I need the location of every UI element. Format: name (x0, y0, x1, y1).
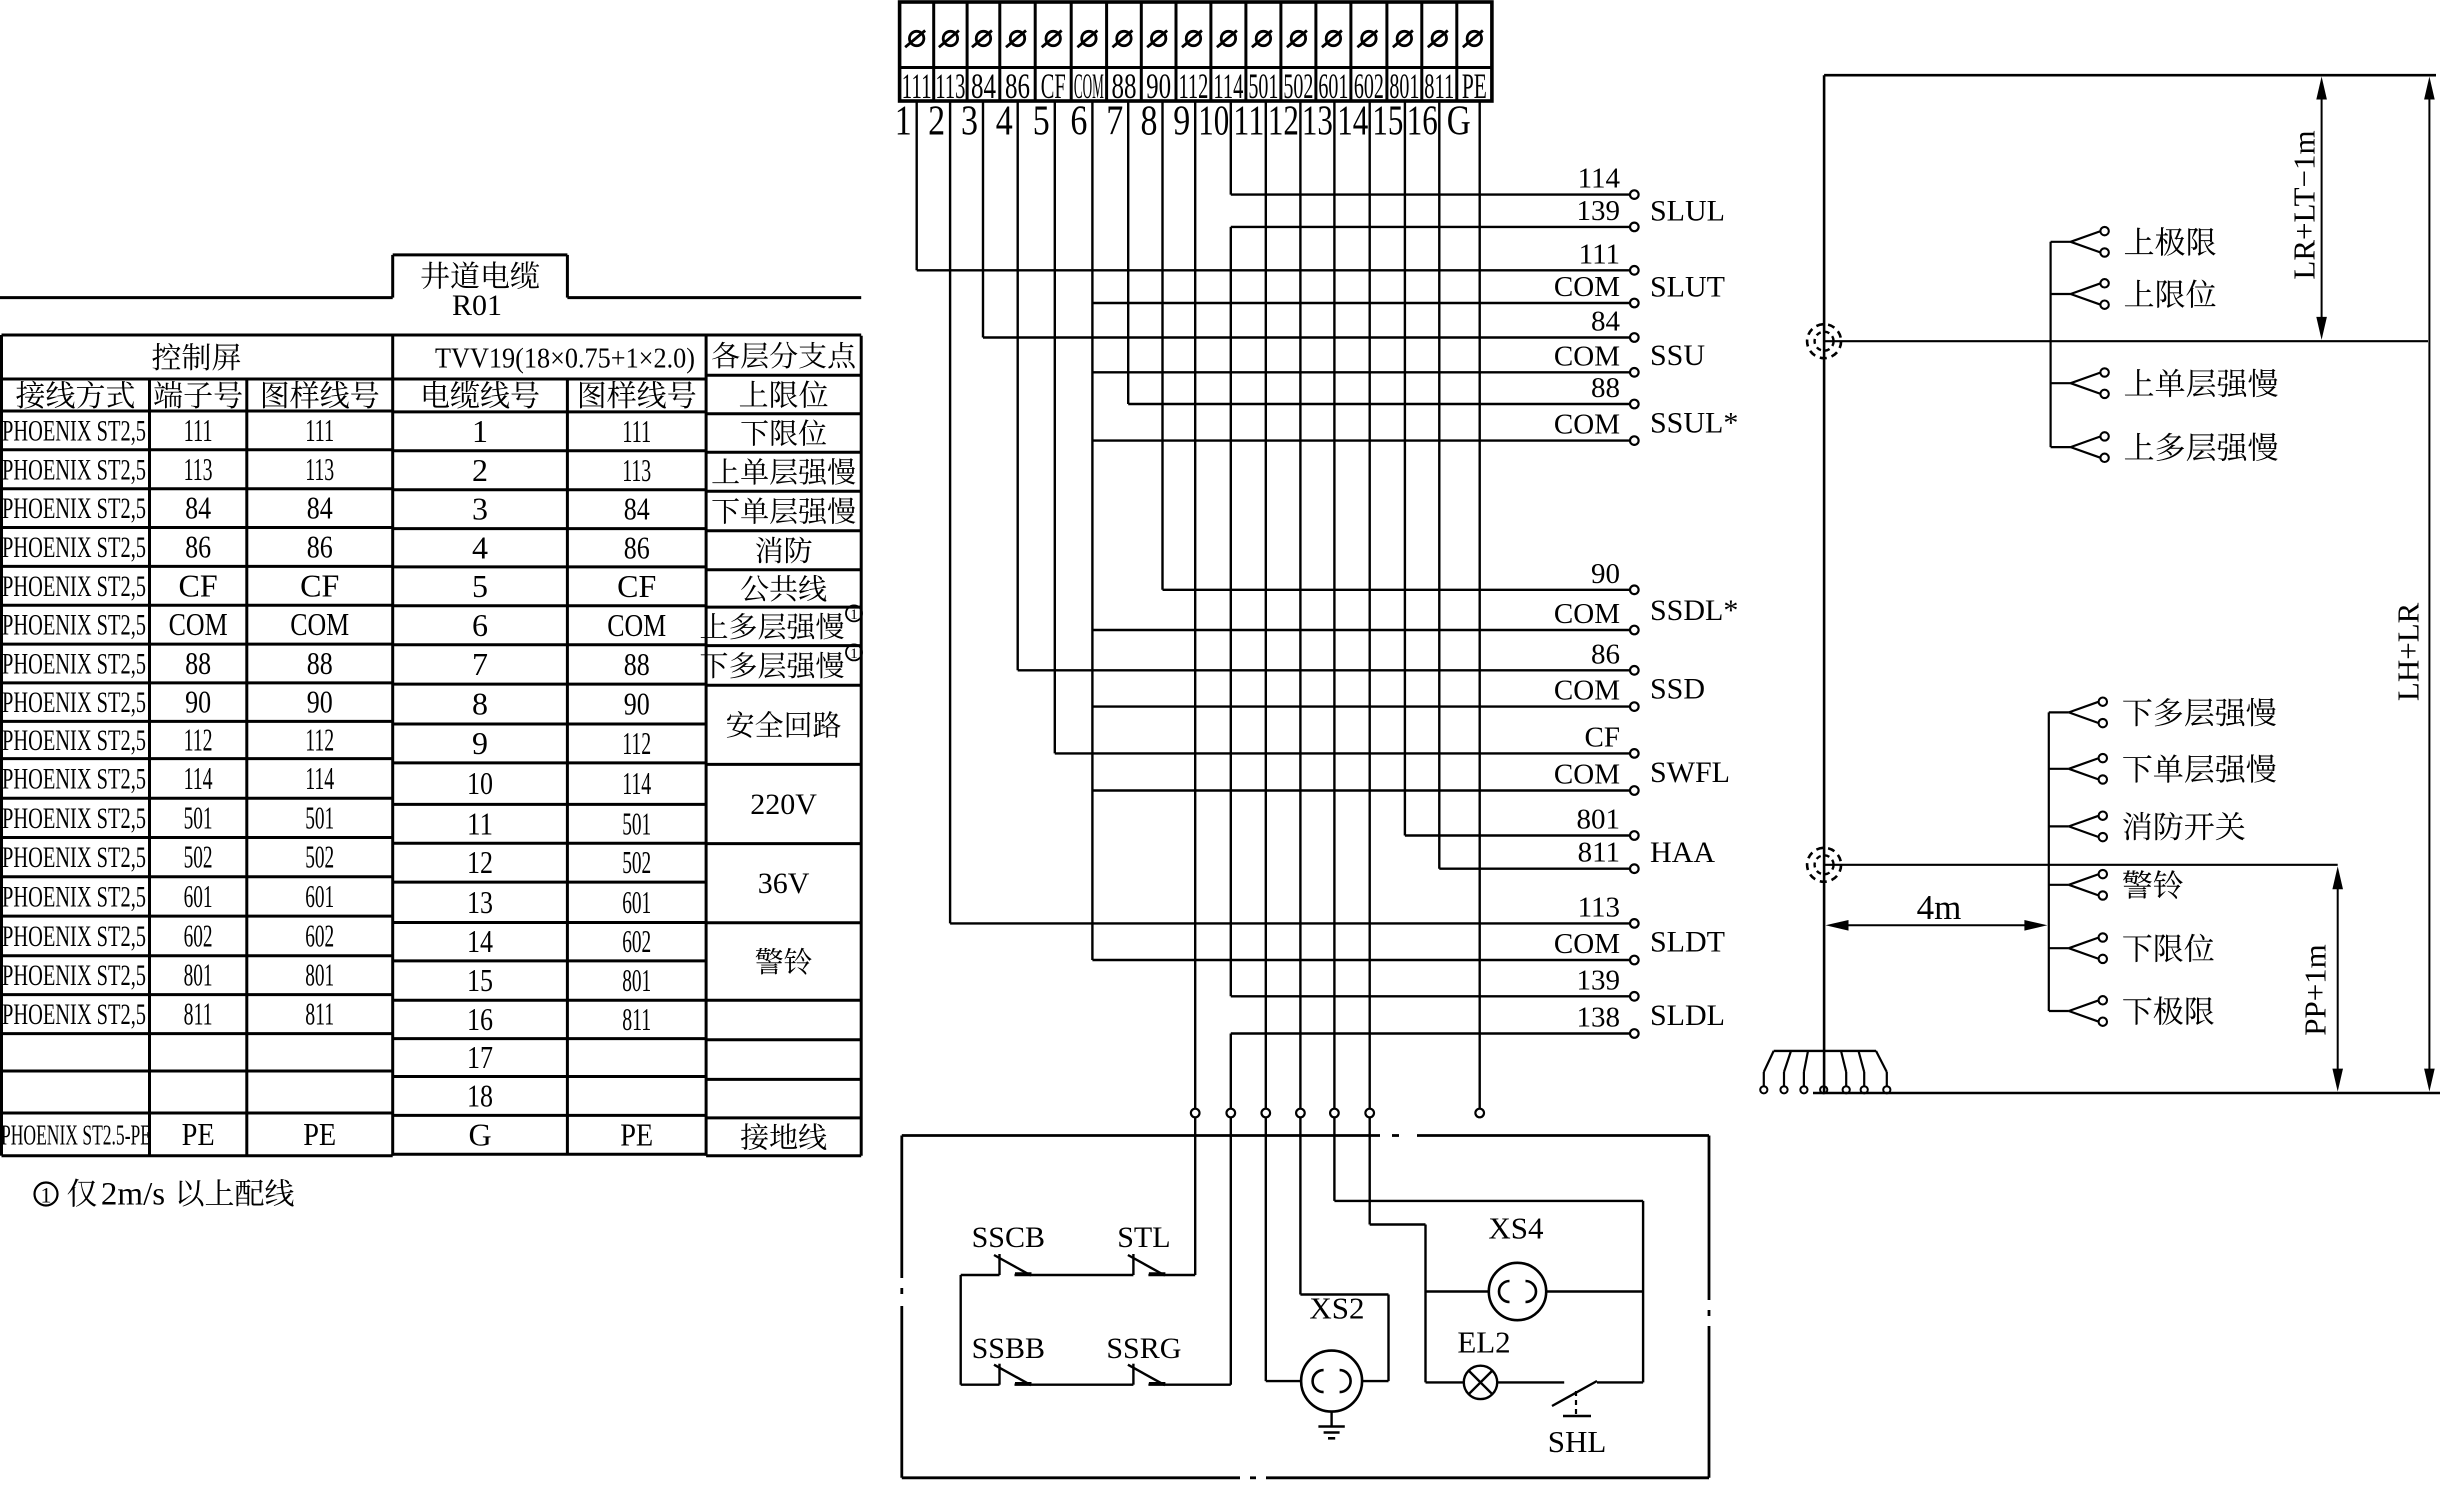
terminal 10 screw symbol (1217, 31, 1237, 48)
svg-text:602: 602 (305, 917, 334, 953)
svg-text:COM: COM (1554, 675, 1620, 707)
svg-text:84: 84 (624, 491, 650, 527)
wire 86 to SSD upper contact (1018, 666, 1639, 675)
wire COM branch to SSU lower contact (1092, 368, 1638, 377)
shaft travelling-cable vertical (1823, 75, 1826, 1093)
table branch cell 警铃 (756, 948, 783, 975)
dimension PP+1m (2332, 866, 2343, 1091)
svg-text:PHOENIX ST2,5: PHOENIX ST2,5 (2, 414, 146, 447)
table branch cell 公共线 (741, 575, 768, 601)
svg-text:113: 113 (622, 452, 651, 488)
svg-text:113: 113 (184, 451, 213, 487)
wire 801 to HAA upper contact (1405, 831, 1639, 840)
svg-text:PHOENIX ST2,5: PHOENIX ST2,5 (2, 880, 146, 913)
socket XS4 (36V socket) (1489, 1263, 1546, 1320)
svg-text:PP+1m: PP+1m (2298, 944, 2333, 1036)
svg-text:12: 12 (467, 844, 493, 880)
svg-text:PHOENIX ST2,5: PHOENIX ST2,5 (2, 998, 146, 1031)
table branch cell 安全回路 (727, 711, 754, 738)
svg-text:PHOENIX ST2,5: PHOENIX ST2,5 (2, 920, 146, 953)
dimension 4m (1826, 920, 2048, 931)
branch line at lower fixing point (1824, 864, 2338, 866)
svg-text:14: 14 (1337, 99, 1368, 145)
table header 图样线号(2) (580, 381, 605, 408)
svg-text:PHOENIX ST2,5: PHOENIX ST2,5 (2, 802, 146, 835)
svg-text:88: 88 (624, 646, 650, 682)
svg-text:SLDL: SLDL (1650, 999, 1725, 1032)
svg-text:111: 111 (622, 413, 651, 449)
label 上极限 (2125, 228, 2153, 255)
svg-text:9: 9 (472, 725, 488, 761)
dimension LH+LR (2424, 77, 2435, 1092)
svg-text:1: 1 (895, 99, 912, 145)
svg-text:11: 11 (1233, 99, 1264, 145)
svg-text:801: 801 (184, 957, 213, 993)
svg-text:COM: COM (1554, 409, 1620, 441)
wire COM branch to SWFL lower contact (1092, 786, 1638, 795)
wire 88 to SSUL* upper contact (1128, 400, 1638, 409)
table header 接线方式 (16, 381, 44, 409)
wire 111 vertical from terminal 1 (916, 101, 918, 270)
svg-text:CF: CF (1585, 721, 1620, 753)
connector point PE at car-box entry (1475, 1109, 1484, 1118)
dimension text LR+LT-1m (2287, 130, 2322, 279)
svg-text:811: 811 (622, 1001, 651, 1037)
svg-text:6: 6 (472, 607, 488, 643)
table branch cell 上单层强慢 (712, 458, 739, 483)
terminal 1 screw symbol (905, 31, 925, 48)
wire 138 to SLDL lower contact (1231, 1029, 1639, 1038)
wire 114 to SLUL upper contact (1231, 190, 1639, 199)
svg-text:PHOENIX ST2,5: PHOENIX ST2,5 (2, 959, 146, 992)
label 下多层强慢 (2123, 699, 2152, 727)
table header 电缆线号 (424, 381, 449, 408)
wire 602 vertical from terminal 14 (1368, 101, 1370, 1109)
wire XS4 left lead (1426, 1290, 1489, 1292)
svg-text:PHOENIX ST2,5: PHOENIX ST2,5 (2, 762, 146, 795)
branch switch up single-floor speed switch (2051, 368, 2109, 398)
svg-text:501: 501 (184, 799, 213, 835)
svg-text:COM: COM (169, 606, 228, 642)
svg-text:5: 5 (472, 568, 488, 604)
svg-text:502: 502 (622, 844, 651, 880)
wire 811 vertical from terminal 16 (1438, 101, 1440, 869)
svg-text:15: 15 (1372, 99, 1403, 145)
svg-text:SSBB: SSBB (972, 1332, 1045, 1365)
branch switch lower limit (2049, 933, 2107, 963)
svg-text:111: 111 (305, 412, 334, 448)
lamp EL2 (car light) (1426, 1366, 1498, 1399)
svg-text:CF: CF (617, 568, 656, 604)
wire 501 vertical from terminal 11 (1265, 101, 1267, 1109)
svg-text:COM: COM (1554, 271, 1620, 303)
upper branch bus (2050, 242, 2052, 447)
svg-text:112: 112 (622, 725, 651, 761)
wire 139 vertical (SLUL lower to SLDL upper) (1230, 227, 1232, 996)
branch switch lower final limit (2049, 996, 2107, 1026)
wire 811 to HAA lower contact (1439, 864, 1638, 873)
wire COM branch to SLUT lower contact (1092, 299, 1638, 308)
wire from connector 112 down to STL (1194, 1117, 1196, 1275)
table header 各层分支点 (712, 342, 739, 369)
svg-text:PHOENIX ST2,5: PHOENIX ST2,5 (2, 453, 146, 486)
connector point 502 at car-box entry (1296, 1109, 1305, 1118)
svg-text:7: 7 (1106, 99, 1123, 145)
wire 139 to SLUL lower contact (1231, 223, 1639, 232)
svg-text:114: 114 (305, 760, 334, 796)
svg-text:PHOENIX ST2,5: PHOENIX ST2,5 (2, 648, 146, 681)
svg-text:2: 2 (928, 99, 945, 145)
svg-text:G: G (1447, 99, 1471, 145)
label 下限位 (2123, 934, 2152, 962)
svg-text:16: 16 (1407, 99, 1438, 145)
svg-text:TVV19(18×0.75+1×2.0): TVV19(18×0.75+1×2.0) (435, 343, 695, 375)
table header 图样线号 (263, 381, 288, 408)
dimension text LH+LR (2391, 602, 2426, 701)
svg-text:88: 88 (1591, 372, 1620, 404)
svg-text:86: 86 (185, 528, 211, 564)
svg-text:5: 5 (1033, 99, 1050, 145)
branch switch down multi-floor speed switch (2049, 698, 2107, 728)
svg-text:CF: CF (300, 567, 339, 603)
branch switch upper final limit (2051, 227, 2109, 257)
svg-text:SLUT: SLUT (1650, 271, 1725, 304)
terminal 6 screw symbol (1077, 31, 1097, 48)
svg-text:12: 12 (1268, 99, 1299, 145)
svg-text:COM: COM (607, 607, 666, 643)
svg-text:801: 801 (305, 957, 334, 993)
svg-text:COM: COM (290, 606, 349, 642)
wire 112 vertical from terminal 9 down to safety circuit (1194, 101, 1196, 1109)
svg-text:86: 86 (1591, 638, 1620, 670)
wire PE vertical from terminal G (1478, 101, 1480, 1109)
svg-text:18: 18 (467, 1077, 493, 1113)
terminal block X1 (controller terminal strip) (900, 2, 1492, 101)
wire CF vertical from terminal 5 (1054, 101, 1056, 753)
svg-text:84: 84 (185, 490, 211, 526)
connector point 138 at car-box entry (1227, 1109, 1236, 1118)
wire 114 vertical from terminal 10 (1230, 101, 1232, 195)
svg-text:113: 113 (305, 451, 334, 487)
svg-text:138: 138 (1577, 1002, 1621, 1034)
svg-text:PE: PE (620, 1116, 653, 1152)
terminal 9 screw symbol (1182, 31, 1202, 48)
label 井道电缆 (421, 262, 449, 289)
svg-text:HAA: HAA (1650, 836, 1715, 869)
switch SHL (car light switch) (1552, 1381, 1643, 1416)
table branch cell 下限位 (741, 420, 768, 446)
svg-text:LR+LT−1m: LR+LT−1m (2287, 130, 2322, 279)
svg-text:2m/s: 2m/s (101, 1177, 165, 1213)
terminal 8 screw symbol (1147, 31, 1167, 48)
cable fan-out at pit (1760, 1051, 1890, 1094)
wire 84 to SSU upper contact (983, 333, 1639, 342)
wire 84 vertical from terminal 3 (982, 101, 984, 338)
svg-text:XS4: XS4 (1488, 1211, 1544, 1246)
svg-text:PHOENIX ST2,5: PHOENIX ST2,5 (2, 724, 146, 757)
svg-text:10: 10 (1198, 99, 1229, 145)
hoistway-cable tab box 井道电缆 R01 (0, 255, 861, 298)
wire from connector 138 down to SSRG (1230, 1117, 1232, 1384)
wire 86 vertical from terminal 4 (1017, 101, 1019, 670)
branch switch down single-floor speed switch (2049, 754, 2107, 784)
svg-text:88: 88 (307, 645, 333, 681)
wire EL2 to SHL (1497, 1381, 1564, 1383)
svg-text:COM: COM (1554, 598, 1620, 630)
svg-text:SSDL*: SSDL* (1650, 594, 1738, 627)
svg-text:4: 4 (996, 99, 1013, 145)
svg-text:114: 114 (184, 760, 213, 796)
wire 90 to SSDL* upper contact (1163, 586, 1639, 595)
table branch cell 接地线 (741, 1123, 768, 1150)
wire 601 feed to right rail (1334, 1117, 1643, 1382)
svg-text:PHOENIX ST2,5: PHOENIX ST2,5 (2, 841, 146, 874)
wire COM branch to SSDL* lower contact (1092, 626, 1638, 635)
svg-text:PE: PE (182, 1116, 215, 1152)
wire safety row lower (SSBB-SSRG series) (961, 1383, 1231, 1385)
svg-text:SHL: SHL (1548, 1424, 1607, 1459)
svg-text:14: 14 (467, 923, 493, 959)
table branch cell 上多层强慢① (701, 613, 728, 638)
terminal 15 screw symbol (1393, 31, 1413, 48)
branch switch alarm bell (2049, 870, 2107, 900)
label 上限位 (2125, 280, 2153, 307)
terminal-assignment table grid (2, 335, 862, 1156)
svg-text:113: 113 (1578, 891, 1620, 923)
table header 控制屏 (152, 343, 180, 370)
terminal 7 screw symbol (1112, 31, 1132, 48)
car equipment enclosure box (chain-line boundary) (902, 1136, 1709, 1478)
terminal 16 screw symbol (1428, 31, 1448, 48)
wire CF to SWFL upper contact (1055, 749, 1639, 758)
svg-text:1: 1 (850, 646, 858, 662)
terminal 14 screw symbol (1357, 31, 1377, 48)
svg-text:3: 3 (472, 491, 488, 527)
svg-text:CF: CF (179, 567, 218, 603)
svg-text:86: 86 (624, 529, 650, 565)
table cell 上限位 (740, 381, 768, 407)
terminal 2 screw symbol (939, 31, 959, 48)
wire COM branch to SLDT lower contact (1092, 956, 1638, 965)
svg-text:13: 13 (1302, 99, 1333, 145)
switch SSBB (pit stop switch, NC) (994, 1364, 1032, 1386)
branch line at upper fixing point (1824, 340, 2428, 342)
svg-text:111: 111 (184, 412, 213, 448)
svg-text:84: 84 (1591, 306, 1621, 338)
svg-text:SSRG: SSRG (1106, 1332, 1181, 1365)
wire 113 to SLDT upper contact (950, 919, 1639, 928)
wire 139 to SLDL upper contact (1231, 992, 1639, 1001)
connector point 601 at car-box entry (1330, 1109, 1339, 1118)
svg-text:601: 601 (305, 878, 334, 914)
svg-text:SLDT: SLDT (1650, 926, 1725, 959)
wire 801 vertical from terminal 15 (1404, 101, 1406, 836)
svg-text:16: 16 (467, 1001, 493, 1037)
svg-text:PE: PE (303, 1116, 336, 1152)
wire 602 feed to left rail of XS4/EL2 (1370, 1117, 1426, 1382)
svg-text:PHOENIX ST2.5-PE: PHOENIX ST2.5-PE (1, 1120, 151, 1151)
wire 501 drop to XS2 left contact (1266, 1117, 1301, 1381)
svg-text:3: 3 (961, 99, 978, 145)
svg-text:501: 501 (622, 805, 651, 841)
svg-text:SLUL: SLUL (1650, 195, 1725, 228)
table header 端子号 (154, 381, 182, 408)
svg-text:601: 601 (184, 878, 213, 914)
svg-text:PHOENIX ST2,5: PHOENIX ST2,5 (2, 609, 146, 642)
wire COM branch to SSUL* lower contact (1092, 436, 1638, 445)
svg-text:801: 801 (1577, 804, 1621, 836)
svg-text:112: 112 (305, 722, 334, 758)
svg-text:139: 139 (1577, 195, 1621, 227)
svg-text:COM: COM (1554, 340, 1620, 372)
ground symbol under XS2 (1318, 1412, 1344, 1439)
svg-text:88: 88 (185, 645, 211, 681)
svg-text:9: 9 (1173, 99, 1190, 145)
svg-text:8: 8 (1141, 99, 1158, 145)
wire 90 vertical from terminal 8 (1161, 101, 1163, 590)
svg-text:PHOENIX ST2,5: PHOENIX ST2,5 (2, 492, 146, 525)
svg-text:1: 1 (472, 413, 488, 449)
svg-text:10: 10 (467, 765, 493, 801)
pit floor line (1813, 1092, 2440, 1095)
svg-text:SSCB: SSCB (972, 1221, 1045, 1254)
svg-text:6: 6 (1070, 99, 1087, 145)
svg-text:114: 114 (1578, 163, 1621, 195)
shaft headroom line (top) (1824, 74, 2436, 77)
svg-text:90: 90 (185, 684, 211, 720)
svg-text:4: 4 (472, 529, 488, 565)
switch SSCB (buffer switch, NC) (994, 1254, 1032, 1276)
wire 88 vertical from terminal 7 (1127, 101, 1129, 404)
terminal G screw symbol (1463, 31, 1483, 48)
svg-text:90: 90 (1591, 558, 1620, 590)
svg-text:SSD: SSD (1650, 673, 1705, 706)
wire 113 vertical from terminal 2 (949, 101, 951, 923)
svg-text:SSU: SSU (1650, 339, 1705, 372)
svg-text:2: 2 (472, 452, 488, 488)
svg-text:STL: STL (1117, 1221, 1170, 1254)
branch switch fire service switch (2049, 812, 2107, 842)
svg-text:PHOENIX ST2,5: PHOENIX ST2,5 (2, 570, 146, 603)
wire safety rows left link (960, 1275, 962, 1385)
svg-text:PHOENIX ST2,5: PHOENIX ST2,5 (2, 686, 146, 719)
svg-text:SSUL*: SSUL* (1650, 406, 1738, 439)
label 下单层强慢 (2123, 755, 2152, 783)
svg-text:R01: R01 (452, 289, 502, 322)
connector point 112 at car-box entry (1191, 1109, 1200, 1118)
wire 138 vertical (SLDL lower down to box) (1230, 1034, 1232, 1109)
svg-text:501: 501 (305, 799, 334, 835)
wire 601 vertical from terminal 13 (1333, 101, 1335, 1109)
svg-text:801: 801 (622, 962, 651, 998)
connector point 501 at car-box entry (1262, 1109, 1271, 1118)
svg-text:PHOENIX ST2,5: PHOENIX ST2,5 (2, 531, 146, 564)
svg-text:602: 602 (184, 917, 213, 953)
cable clamp (lower fixing point) (1807, 848, 1841, 882)
svg-text:7: 7 (472, 646, 488, 682)
terminal 5 screw symbol (1042, 31, 1062, 48)
svg-text:8: 8 (472, 686, 488, 722)
svg-text:139: 139 (1577, 964, 1621, 996)
connector point 602 at car-box entry (1365, 1109, 1374, 1118)
wire safety row upper (SSCB-STL series) (961, 1274, 1195, 1276)
wire 111 to SLUT upper contact (917, 266, 1639, 275)
svg-text:502: 502 (184, 839, 213, 875)
label 上单层强慢 (2125, 369, 2153, 396)
switch SSRG (governor tension switch, NC) (1128, 1364, 1166, 1386)
wire COM bus vertical from terminal 6 (1091, 101, 1093, 960)
svg-text:4m: 4m (1917, 888, 1962, 927)
wire 502 vertical from terminal 12 (1299, 101, 1301, 1109)
svg-text:36V: 36V (758, 867, 810, 900)
svg-text:COM: COM (1554, 928, 1620, 960)
label 警铃 (2123, 870, 2152, 898)
svg-text:SWFL: SWFL (1650, 756, 1730, 789)
svg-text:602: 602 (622, 923, 651, 959)
svg-text:114: 114 (622, 765, 651, 801)
table branch cell 消防 (756, 537, 782, 564)
cable clamp (upper fixing point) (1807, 324, 1841, 358)
label 下极限 (2123, 997, 2152, 1025)
wire 502 dogleg to XS2 right contact (1300, 1117, 1388, 1381)
terminal 12 screw symbol (1287, 31, 1307, 48)
svg-text:601: 601 (622, 884, 651, 920)
switch STL (tension device switch, NC) (1128, 1254, 1166, 1276)
svg-text:XS2: XS2 (1309, 1291, 1364, 1326)
svg-text:90: 90 (307, 684, 333, 720)
svg-text:811: 811 (305, 996, 334, 1032)
svg-text:86: 86 (307, 528, 333, 564)
svg-text:COM: COM (1554, 759, 1620, 791)
terminal 3 screw symbol (972, 31, 992, 48)
table branch cell 下单层强慢 (712, 498, 739, 524)
socket XS2 (220V service socket) (1301, 1351, 1362, 1412)
svg-text:G: G (468, 1116, 491, 1152)
table branch cell 下多层强慢① (701, 652, 728, 678)
svg-text:11: 11 (467, 805, 493, 841)
svg-text:811: 811 (184, 996, 213, 1032)
branch switch up multi-floor speed switch (2051, 432, 2109, 462)
terminal 11 screw symbol (1252, 31, 1272, 48)
terminal 4 screw symbol (1006, 31, 1026, 48)
svg-text:13: 13 (467, 884, 493, 920)
wire COM branch to SSD lower contact (1092, 702, 1638, 711)
svg-text:111: 111 (1579, 238, 1620, 270)
svg-text:1: 1 (850, 607, 858, 623)
wire XS4 right lead (1546, 1290, 1643, 1292)
lower branch bus (2048, 712, 2050, 1011)
svg-text:112: 112 (184, 722, 213, 758)
dimension LR+LT-1m (2316, 77, 2327, 340)
svg-text:17: 17 (467, 1039, 493, 1075)
dimension text PP+1m (2298, 944, 2333, 1036)
svg-text:811: 811 (1578, 837, 1620, 869)
svg-text:90: 90 (624, 686, 650, 722)
svg-text:EL2: EL2 (1457, 1325, 1510, 1360)
branch switch upper limit (2051, 279, 2109, 309)
terminal 13 screw symbol (1322, 31, 1342, 48)
svg-text:15: 15 (467, 962, 493, 998)
label 消防开关 (2123, 812, 2151, 840)
svg-text:84: 84 (307, 490, 333, 526)
svg-text:LH+LR: LH+LR (2391, 602, 2426, 701)
svg-text:1: 1 (41, 1183, 52, 1208)
svg-text:220V: 220V (750, 788, 817, 821)
svg-text:502: 502 (305, 839, 334, 875)
label 上多层强慢 (2125, 433, 2153, 460)
footnote ① 仅2m/s以上配线 (35, 1183, 58, 1208)
